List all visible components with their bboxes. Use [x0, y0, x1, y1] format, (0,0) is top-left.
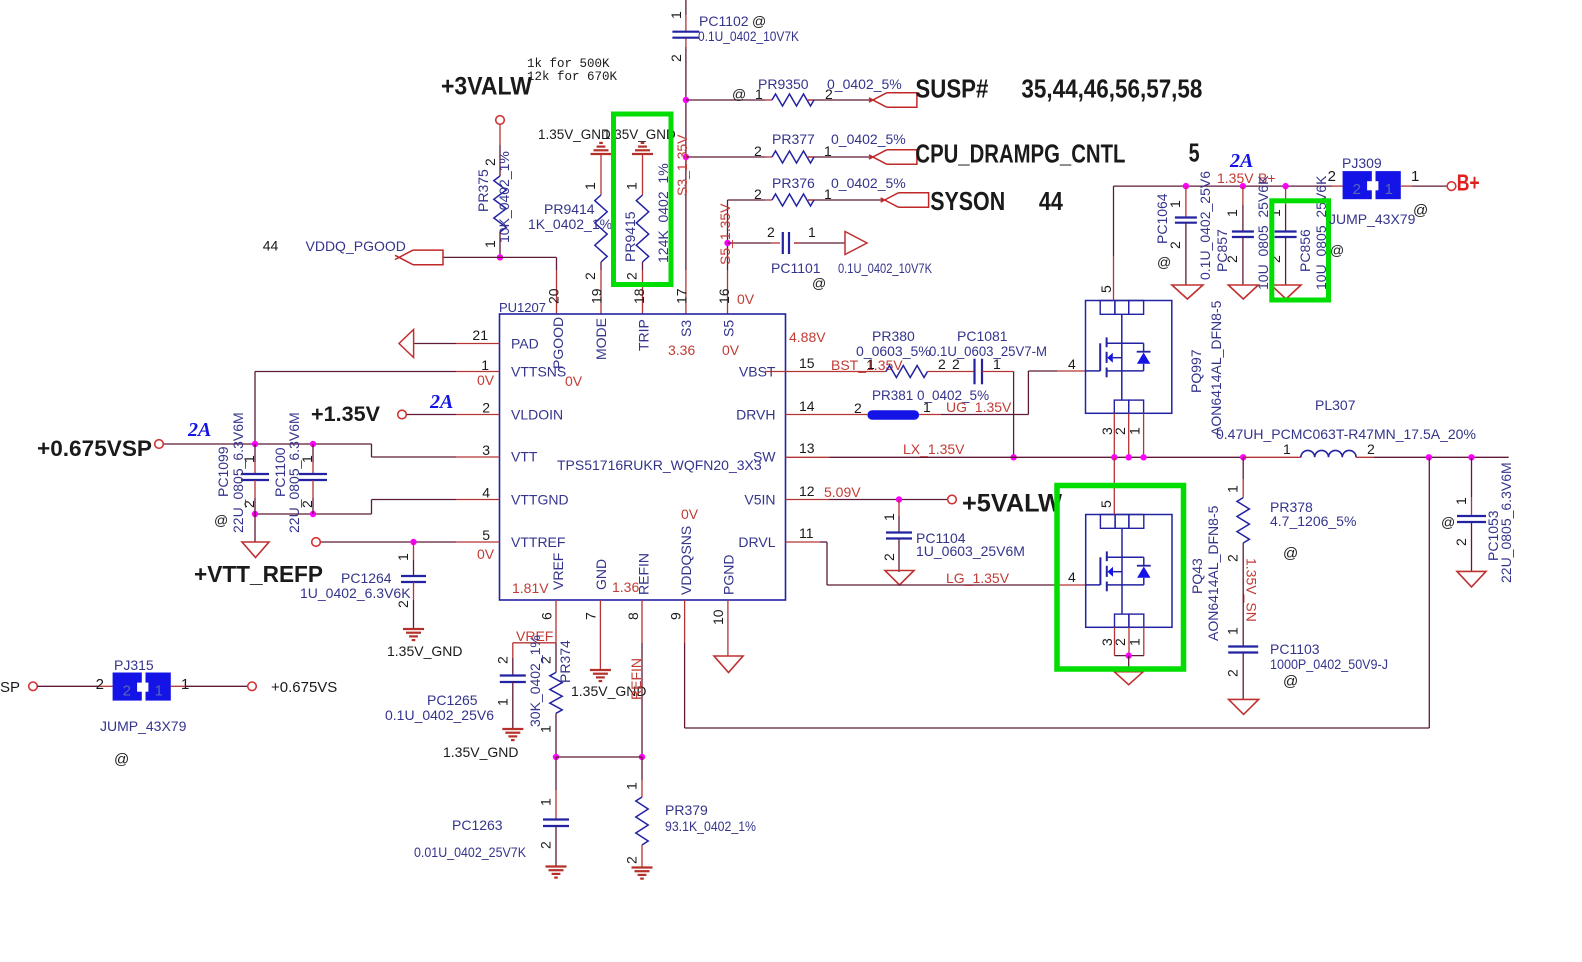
svg-text:1: 1	[582, 182, 598, 190]
svg-text:VDDQ_PGOOD: VDDQ_PGOOD	[306, 238, 406, 254]
svg-text:1.35V: 1.35V	[1217, 170, 1254, 186]
svg-text:19: 19	[589, 288, 605, 304]
svg-text:2: 2	[624, 272, 640, 280]
svg-text:0.1U_0402_10V7K: 0.1U_0402_10V7K	[698, 28, 800, 44]
wire REFIN bottom link	[556, 756, 642, 758]
svg-text:1: 1	[395, 553, 411, 561]
svg-text:PJ309: PJ309	[1342, 155, 1382, 171]
svg-text:PR379: PR379	[665, 802, 708, 818]
svg-text:PC1102: PC1102	[699, 13, 749, 29]
terminal circle +0.675VS	[248, 682, 257, 691]
svg-text:0V: 0V	[477, 546, 495, 562]
svg-text:REFIN: REFIN	[628, 658, 644, 700]
svg-text:0V: 0V	[477, 372, 495, 388]
wire PR378 to PC1103	[1242, 543, 1244, 647]
svg-text:PC1264: PC1264	[341, 570, 392, 586]
svg-text:1.81V: 1.81V	[512, 580, 549, 596]
capacitor PC1081	[929, 328, 1047, 384]
svg-text:PR375: PR375	[475, 169, 491, 212]
wire to PR377	[686, 156, 765, 158]
svg-text:1: 1	[1283, 441, 1291, 457]
capacitor PC1104	[881, 500, 1025, 573]
transistor PQ997	[1068, 285, 1224, 436]
svg-text:17: 17	[674, 288, 690, 304]
svg-text:1000P_0402_50V9-J: 1000P_0402_50V9-J	[1270, 656, 1388, 672]
wire PR9414 to pin19	[600, 262, 602, 270]
svg-text:0V: 0V	[565, 373, 583, 389]
svg-text:2: 2	[123, 683, 131, 700]
svg-text:1K_0402_1%: 1K_0402_1%	[528, 216, 612, 232]
svg-text:4: 4	[482, 485, 490, 501]
wire DRVH to PQ997 gate	[919, 414, 941, 416]
svg-text:SW: SW	[753, 449, 776, 465]
svg-text:10U_0805_25V6K: 10U_0805_25V6K	[1255, 175, 1271, 290]
svg-text:@: @	[732, 86, 746, 102]
svg-text:VREF: VREF	[550, 553, 566, 590]
wire pin11 DRVL	[786, 541, 821, 543]
power ground below PC1103	[1229, 699, 1259, 714]
svg-text:PC1103: PC1103	[1270, 641, 1320, 657]
svg-text:10K_0402_1%: 10K_0402_1%	[496, 151, 512, 243]
green highlight box around PC856	[1272, 201, 1329, 300]
wire to PR9350	[686, 99, 765, 101]
svg-text:VTTREF: VTTREF	[511, 534, 565, 550]
green highlight box around PQ43	[1057, 486, 1184, 670]
svg-text:S5: S5	[721, 320, 737, 337]
capacitor PC1101	[767, 224, 933, 291]
svg-text:0_0402_5%: 0_0402_5%	[831, 131, 906, 147]
wire PC1099 to ground	[254, 514, 256, 542]
svg-text:0.1U_0402_25V6: 0.1U_0402_25V6	[385, 707, 494, 723]
svg-text:2: 2	[538, 841, 554, 849]
svg-text:1: 1	[624, 182, 640, 190]
wire pin5 VTTREF	[456, 541, 500, 543]
resistor PR377	[754, 131, 906, 163]
svg-text:@: @	[1413, 202, 1428, 219]
svg-text:2: 2	[881, 553, 897, 561]
svg-text:5: 5	[1098, 500, 1114, 508]
svg-text:1: 1	[538, 798, 554, 806]
svg-text:+3VALW: +3VALW	[441, 73, 532, 101]
svg-text:PU1207: PU1207	[499, 300, 546, 315]
svg-text:15: 15	[799, 355, 815, 371]
junction node LX / PR378 / PL307	[1240, 454, 1246, 460]
capacitor PC1102	[668, 11, 800, 62]
svg-text:PC1101: PC1101	[771, 260, 821, 276]
svg-text:S3_1.35V: S3_1.35V	[674, 134, 690, 196]
svg-text:+VTT_REFP: +VTT_REFP	[194, 561, 323, 587]
ground 1.35V_GND pin7	[571, 670, 646, 699]
power ground pin10 PGND	[714, 656, 743, 673]
wire PR380 to PC1081	[928, 371, 975, 373]
svg-text:JUMP_43X79: JUMP_43X79	[100, 718, 187, 734]
capacitor PC1265	[385, 643, 526, 729]
op-amp U1 : IC PU1207 TPS51716	[472, 288, 814, 625]
svg-text:2: 2	[624, 856, 640, 864]
svg-text:2A: 2A	[187, 419, 211, 441]
wire PQ43 source stubs to ground	[1114, 627, 1116, 655]
svg-text:PGOOD: PGOOD	[550, 317, 566, 369]
svg-text:CPU_DRAMPG_CNTL: CPU_DRAMPG_CNTL	[915, 139, 1125, 169]
svg-text:35,44,46,56,57,58: 35,44,46,56,57,58	[1021, 74, 1202, 104]
svg-text:TRIP: TRIP	[636, 319, 652, 351]
svg-text:8: 8	[625, 612, 641, 620]
svg-text:PGND: PGND	[721, 555, 737, 595]
off-page arrow right of PC1101	[845, 232, 867, 255]
svg-text:12k for 670K: 12k for 670K	[527, 70, 618, 84]
svg-text:5: 5	[1189, 138, 1200, 168]
svg-text:0.1U_0402_25V6: 0.1U_0402_25V6	[1197, 171, 1213, 280]
svg-text:UG_1.35V: UG_1.35V	[946, 399, 1012, 415]
svg-text:16: 16	[716, 288, 732, 304]
svg-text:1: 1	[668, 11, 684, 19]
resistor PR9415	[622, 154, 671, 280]
wire PJ309 to B+	[1401, 185, 1412, 187]
svg-text:GND: GND	[593, 559, 609, 590]
svg-text:VTTGND: VTTGND	[511, 492, 569, 508]
svg-text:SYSON: SYSON	[930, 186, 1005, 216]
svg-text:2: 2	[482, 400, 490, 416]
wire to PJ315	[37, 685, 99, 687]
power ground below PC1104	[885, 571, 914, 586]
junction node PC1104	[896, 496, 902, 502]
wire pin1 VTTSNS	[456, 371, 500, 373]
wire LX output	[1374, 456, 1509, 458]
svg-text:11: 11	[799, 525, 814, 541]
svg-text:2: 2	[395, 600, 411, 608]
svg-text:2A: 2A	[429, 391, 453, 413]
svg-text:1: 1	[881, 513, 897, 521]
jumper PJ315	[96, 657, 190, 768]
svg-text:5: 5	[482, 527, 490, 543]
wire net S5	[728, 199, 766, 201]
power ground below PC1053	[1457, 571, 1486, 587]
svg-text:2: 2	[1225, 554, 1241, 562]
inductor PL307	[1216, 397, 1476, 457]
svg-text:PC1081: PC1081	[957, 328, 1008, 344]
svg-text:PC1099: PC1099	[215, 446, 231, 497]
resistor PR9350	[732, 76, 902, 106]
svg-text:2: 2	[767, 224, 775, 240]
svg-text:+5VALW: +5VALW	[962, 490, 1062, 518]
transistor PQ43	[1068, 500, 1221, 646]
wire PQ43 drain to LX	[1113, 457, 1115, 514]
svg-text:22U_0805_6.3V6M: 22U_0805_6.3V6M	[286, 412, 302, 533]
svg-text:1: 1	[624, 782, 640, 790]
jumper PJ309	[1328, 155, 1429, 227]
svg-text:SUSP#: SUSP#	[915, 74, 988, 104]
svg-text:93.1K_0402_1%: 93.1K_0402_1%	[665, 818, 756, 834]
resistor PR381 (0 ohm bar)	[854, 388, 989, 420]
capacitor PC1264	[300, 542, 426, 629]
ground 1.35V_GND below PC1264	[387, 629, 462, 659]
svg-text:44: 44	[263, 238, 279, 254]
svg-text:@: @	[1283, 545, 1298, 562]
wire to PC1101	[728, 242, 772, 244]
junction nodes REFIN bottom	[553, 754, 559, 760]
terminal circle left of PJ315	[29, 682, 38, 691]
terminal circle +3VALW	[496, 116, 505, 125]
svg-text:PJ315: PJ315	[114, 657, 154, 673]
ground 1.35V_GND above PR9414	[538, 127, 612, 154]
wire PJ315 to +0.675VS	[171, 685, 185, 687]
svg-text:13: 13	[799, 440, 815, 456]
resistor PR379	[624, 757, 757, 864]
svg-text:V5IN: V5IN	[744, 492, 775, 508]
svg-text:TPS51716RUKR_WQFN20_3X3: TPS51716RUKR_WQFN20_3X3	[557, 457, 762, 473]
power ground below PQ43	[1114, 672, 1143, 685]
terminal circle +5VALW	[948, 495, 957, 504]
svg-text:4.7_1206_5%: 4.7_1206_5%	[1270, 513, 1356, 529]
svg-text:2: 2	[854, 400, 862, 416]
svg-text:14: 14	[799, 398, 815, 414]
svg-text:+0.675VSP: +0.675VSP	[37, 436, 152, 461]
svg-text:1: 1	[1411, 168, 1419, 185]
svg-text:1U_0402_6.3V6K: 1U_0402_6.3V6K	[300, 585, 411, 601]
svg-text:4: 4	[1068, 356, 1076, 372]
svg-text:4.88V: 4.88V	[789, 329, 826, 345]
svg-text:PR377: PR377	[772, 131, 815, 147]
svg-text:VLDOIN: VLDOIN	[511, 407, 563, 423]
terminal circle +0.675VSP	[155, 440, 164, 449]
wire pin7 GND	[599, 600, 601, 670]
svg-text:VTT: VTT	[511, 449, 538, 465]
svg-text:1: 1	[481, 357, 489, 373]
svg-text:2: 2	[754, 143, 762, 159]
svg-text:@: @	[752, 13, 766, 29]
svg-text:1.35V_GND: 1.35V_GND	[387, 643, 462, 659]
capacitor PC1103	[1225, 627, 1389, 699]
svg-text:3: 3	[482, 442, 490, 458]
resistor PR375	[475, 151, 512, 248]
svg-text:PC857: PC857	[1214, 229, 1230, 272]
svg-text:22U_0805_6.3V6M: 22U_0805_6.3V6M	[1498, 462, 1514, 583]
junction node BST cap to LX	[1010, 454, 1016, 460]
svg-text:@: @	[114, 751, 129, 768]
svg-text:1: 1	[181, 676, 189, 693]
power ground below PC856	[1271, 285, 1301, 299]
svg-text:22U_0805_6.3V6M: 22U_0805_6.3V6M	[230, 412, 246, 533]
svg-text:2: 2	[96, 676, 104, 693]
svg-text:2: 2	[1353, 181, 1361, 198]
svg-text:1: 1	[155, 683, 163, 700]
svg-text:PC1064: PC1064	[1154, 193, 1170, 244]
capacitor PC856	[1267, 175, 1344, 290]
svg-text:1: 1	[1225, 485, 1241, 493]
svg-text:DRVL: DRVL	[738, 534, 775, 550]
svg-text:LG_1.35V: LG_1.35V	[946, 570, 1010, 586]
capacitor PC1064	[1154, 171, 1213, 285]
junction node PC1053	[1468, 454, 1474, 460]
wire PR379 to ground	[641, 845, 643, 868]
wire pin10 PGND	[727, 600, 729, 656]
capacitor PC1100	[272, 412, 327, 533]
wire pin4 VTTGND	[456, 499, 500, 501]
wire pin12 V5IN	[786, 499, 830, 501]
wire pin3 VTT	[456, 456, 500, 458]
svg-text:5: 5	[1098, 285, 1114, 293]
svg-text:@: @	[1283, 673, 1298, 690]
svg-text:PC1265: PC1265	[427, 692, 478, 708]
wire 1.35V B+ rail	[1114, 185, 1333, 187]
svg-text:2: 2	[1328, 168, 1336, 185]
svg-text:0_0402_5%: 0_0402_5%	[827, 76, 902, 92]
svg-text:S5_1.35V: S5_1.35V	[717, 203, 733, 265]
svg-text:0V: 0V	[722, 342, 740, 358]
svg-text:2: 2	[495, 656, 511, 664]
svg-text:1: 1	[1453, 497, 1469, 505]
svg-text:0_0402_5%: 0_0402_5%	[831, 175, 906, 191]
wire pin15 VBST	[765, 371, 786, 373]
svg-text:1: 1	[1224, 209, 1240, 217]
svg-text:PQ997: PQ997	[1188, 349, 1204, 393]
wire pin2 VLDOIN from +1.35V	[456, 414, 500, 416]
wire pin14 DRVH	[786, 414, 868, 416]
junction node PQ43 source	[1126, 652, 1132, 658]
net flag VDDQ_PGOOD	[413, 250, 443, 265]
svg-text:S3: S3	[678, 320, 694, 337]
svg-text:SP: SP	[0, 679, 20, 696]
svg-text:PR9415: PR9415	[622, 211, 638, 262]
svg-text:1k for 500K: 1k for 500K	[527, 57, 610, 71]
capacitor PC1263	[414, 757, 569, 867]
svg-text:+1.35V: +1.35V	[311, 403, 380, 426]
svg-text:6: 6	[539, 612, 555, 620]
wire PQ997 drain to 1.35V B+ rail	[1113, 186, 1115, 256]
svg-text:PC1263: PC1263	[452, 817, 503, 833]
svg-text:2: 2	[754, 186, 762, 202]
net flag SYSON	[899, 193, 929, 208]
junction node sense riser	[1426, 454, 1432, 460]
resistor PR374	[527, 635, 573, 733]
wire PR374 to REFIN node	[555, 713, 557, 757]
svg-text:2: 2	[1367, 441, 1375, 457]
wire VDDQSNS sense loop	[684, 600, 686, 643]
wire net S3 vertical from PC1102 to pin 17	[685, 0, 687, 15]
svg-text:VDDQSNS: VDDQSNS	[678, 526, 694, 595]
svg-text:PR9414: PR9414	[544, 201, 595, 217]
power ground below PC1064	[1172, 285, 1203, 299]
svg-text:PR374: PR374	[557, 640, 573, 683]
svg-text:LX_1.35V: LX_1.35V	[903, 441, 965, 457]
ground 1.35V_GND below PC1265	[443, 729, 523, 760]
svg-text:+0.675VS: +0.675VS	[271, 679, 337, 696]
svg-text:2: 2	[1453, 538, 1469, 546]
svg-text:0.1U_0402_10V7K: 0.1U_0402_10V7K	[838, 260, 933, 276]
svg-text:DRVH: DRVH	[736, 407, 775, 423]
ground 1.35V_GND above PR9415	[603, 127, 676, 154]
svg-text:0V: 0V	[737, 291, 755, 307]
svg-text:0.01U_0402_25V7K: 0.01U_0402_25V7K	[414, 844, 527, 860]
power ground below PC1099	[242, 542, 269, 558]
wire +3VALW to PR375	[499, 124, 501, 145]
junction node S5/PC1101	[724, 240, 730, 246]
resistor PR380	[856, 328, 946, 378]
off-page arrow PAD	[399, 330, 414, 358]
net flag SUSP#	[887, 93, 917, 108]
svg-text:PR380: PR380	[872, 328, 915, 344]
svg-text:7: 7	[583, 612, 599, 620]
resistor PR376	[754, 175, 906, 206]
svg-text:@: @	[1330, 242, 1344, 258]
wire PR9415 to pin18	[642, 262, 644, 270]
svg-text:0.1U_0603_25V7-M: 0.1U_0603_25V7-M	[929, 343, 1047, 359]
svg-text:2A: 2A	[1229, 150, 1253, 172]
svg-text:AON6414AL_DFN8-5: AON6414AL_DFN8-5	[1208, 300, 1224, 436]
svg-text:1: 1	[1385, 181, 1393, 198]
ground below PC1263	[546, 865, 567, 867]
svg-text:9: 9	[668, 612, 684, 620]
svg-text:2: 2	[1225, 669, 1241, 677]
junction nodes PQ997 source on LX	[1111, 454, 1117, 460]
junction nodes VTT caps	[252, 441, 258, 447]
svg-text:PR9350: PR9350	[758, 76, 809, 92]
net flag CPU_DRAMPG_CNTL	[887, 150, 917, 165]
wire PC1081 to LX	[982, 371, 1014, 373]
svg-text:0_0603_5%: 0_0603_5%	[856, 343, 931, 359]
svg-text:4: 4	[1068, 569, 1076, 585]
svg-text:1U_0603_25V6M: 1U_0603_25V6M	[916, 543, 1025, 559]
svg-text:PAD: PAD	[511, 336, 539, 352]
svg-text:12: 12	[799, 483, 815, 499]
wire pin21 PAD to arrow	[456, 343, 500, 345]
svg-text:JUMP_43X79: JUMP_43X79	[1329, 211, 1416, 227]
power ground below PC857	[1228, 285, 1258, 299]
svg-text:PR381: PR381	[872, 388, 913, 403]
svg-text:AON6414AL_DFN8-5: AON6414AL_DFN8-5	[1205, 505, 1221, 641]
ground below PR379	[632, 866, 653, 868]
svg-text:21: 21	[472, 327, 488, 343]
junction node PGOOD	[497, 254, 503, 260]
junction node S3/PR9350	[683, 97, 689, 103]
svg-text:5.09V: 5.09V	[824, 484, 861, 500]
svg-text:18: 18	[631, 288, 647, 304]
svg-text:1.35V_GND: 1.35V_GND	[443, 744, 518, 760]
wire VDDQ_PGOOD	[443, 256, 557, 258]
svg-text:PC856: PC856	[1297, 229, 1313, 272]
svg-text:PR376: PR376	[772, 175, 815, 191]
svg-text:@: @	[1157, 254, 1171, 270]
wire PQ997 source stubs to LX	[1113, 413, 1115, 457]
capacitor PC1053	[1441, 457, 1514, 583]
junction nodes rail	[1183, 183, 1189, 189]
svg-text:1: 1	[1225, 627, 1241, 635]
svg-text:44: 44	[1039, 186, 1063, 216]
svg-text:0V: 0V	[681, 506, 699, 522]
svg-text:30K_0402_1%: 30K_0402_1%	[527, 635, 543, 727]
svg-text:20: 20	[546, 288, 562, 304]
terminal circle +1.35V	[398, 410, 407, 419]
svg-text:1.35V_SN: 1.35V_SN	[1244, 558, 1260, 622]
resistor PR9414	[528, 154, 612, 280]
svg-text:1.35V_GND: 1.35V_GND	[538, 127, 611, 142]
capacitor PC857	[1214, 175, 1271, 290]
svg-text:MODE: MODE	[593, 318, 609, 360]
svg-text:B+: B+	[1457, 170, 1480, 196]
terminal circle B+	[1447, 182, 1456, 191]
svg-text:10: 10	[710, 609, 726, 625]
svg-text:2: 2	[582, 272, 598, 280]
svg-text:PL307: PL307	[1315, 397, 1356, 413]
svg-text:1.36: 1.36	[612, 579, 639, 595]
svg-text:@: @	[1441, 514, 1455, 530]
junction node PC1264	[410, 539, 416, 545]
svg-text:0.47UH_PCMC063T-R47MN_17.5A_20: 0.47UH_PCMC063T-R47MN_17.5A_20%	[1216, 426, 1476, 442]
wire pin6 VREF	[555, 600, 557, 643]
svg-text:PQ43: PQ43	[1189, 558, 1205, 594]
svg-text:2: 2	[668, 54, 684, 62]
terminal circle +VTT_REFP	[312, 538, 321, 547]
